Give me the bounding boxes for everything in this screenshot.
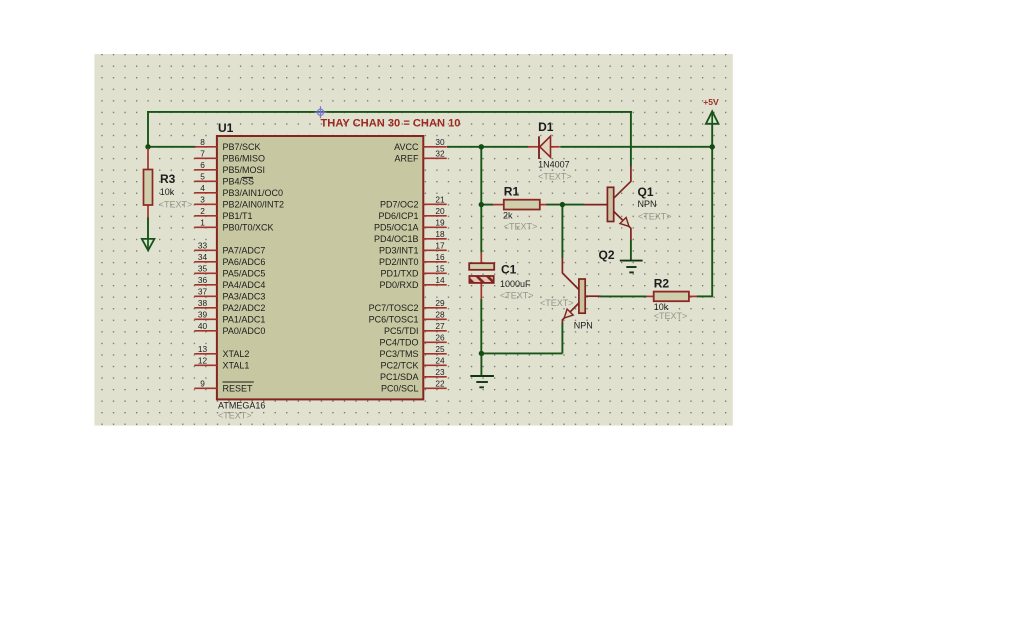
svg-text:33: 33 xyxy=(198,240,208,250)
svg-text:28: 28 xyxy=(435,309,445,319)
junction node C1 ground xyxy=(479,351,484,356)
svg-text:19: 19 xyxy=(435,217,445,227)
svg-text:R1: R1 xyxy=(504,185,520,199)
svg-text:2: 2 xyxy=(200,206,205,216)
wire Q2 emitter down xyxy=(561,323,563,354)
svg-text:<TEXT>: <TEXT> xyxy=(540,298,574,308)
svg-text:40: 40 xyxy=(198,321,208,331)
pin 9 RESET (left) xyxy=(194,378,254,393)
pin 8 PB7/SCK (left) xyxy=(194,137,260,152)
svg-text:2k: 2k xyxy=(503,210,513,220)
svg-text:PD0/RXD: PD0/RXD xyxy=(379,280,419,290)
svg-text:ATMEGA16: ATMEGA16 xyxy=(218,401,265,411)
svg-text:27: 27 xyxy=(435,321,445,331)
wire R2 right to +5V riser xyxy=(697,295,713,297)
pin 4 PB3/AIN1/OC0 (left) xyxy=(194,183,283,198)
svg-text:PB3/AIN1/OC0: PB3/AIN1/OC0 xyxy=(223,188,284,198)
svg-text:PA3/ADC3: PA3/ADC3 xyxy=(223,292,266,302)
svg-text:PC4/TDO: PC4/TDO xyxy=(379,338,418,348)
svg-text:30: 30 xyxy=(435,137,445,147)
ground terminal below R3 xyxy=(142,218,155,251)
pin 17 PD3/INT1 (right) xyxy=(379,240,447,255)
svg-text:25: 25 xyxy=(435,344,445,354)
transistor Q1 NPN xyxy=(584,166,672,240)
pin 26 PC4/TDO (right) xyxy=(379,332,446,347)
svg-text:XTAL1: XTAL1 xyxy=(223,361,250,371)
schematic note THAY CHAN 30 = CHAN 10 xyxy=(321,118,461,130)
pin 33 PA7/ADC7 (left) xyxy=(194,240,265,255)
svg-text:5: 5 xyxy=(200,171,205,181)
svg-text:8: 8 xyxy=(200,137,205,147)
junction node Q1 base / Q2 collector xyxy=(560,202,565,207)
svg-text:34: 34 xyxy=(198,252,208,262)
svg-text:THAY CHAN 30 = CHAN 10: THAY CHAN 30 = CHAN 10 xyxy=(321,118,461,130)
pin 35 PA5/ADC5 (left) xyxy=(194,263,265,278)
pin 1 PB0/T0/XCK (left) xyxy=(194,217,273,232)
pin 38 PA2/ADC2 (left) xyxy=(194,298,265,313)
svg-text:1: 1 xyxy=(200,217,205,227)
wire node down to Q2 collector xyxy=(561,205,563,258)
svg-text:PB4/SS: PB4/SS xyxy=(223,177,255,187)
svg-text:<TEXT>: <TEXT> xyxy=(159,200,193,210)
svg-text:R3: R3 xyxy=(160,172,176,186)
svg-text:24: 24 xyxy=(435,355,445,365)
pin 12 XTAL1 (left) xyxy=(194,355,249,370)
svg-text:PA5/ADC5: PA5/ADC5 xyxy=(223,269,266,279)
svg-text:9: 9 xyxy=(200,378,205,388)
pin 36 PA4/ADC4 (left) xyxy=(194,275,265,290)
svg-text:PA0/ADC0: PA0/ADC0 xyxy=(223,326,266,336)
wire AVCC pin30 to D1 xyxy=(447,146,528,148)
svg-text:<TEXT>: <TEXT> xyxy=(654,311,688,321)
svg-text:PB7/SCK: PB7/SCK xyxy=(223,142,261,152)
diode D1 1N4007 xyxy=(528,120,572,181)
svg-text:PC3/TMS: PC3/TMS xyxy=(379,349,418,359)
junction node R1 left xyxy=(479,202,484,207)
svg-text:<TEXT>: <TEXT> xyxy=(638,212,672,222)
svg-text:36: 36 xyxy=(198,275,208,285)
resistor R3 10k (vertical) xyxy=(144,148,193,218)
svg-text:18: 18 xyxy=(435,229,445,239)
svg-text:PD1/TXD: PD1/TXD xyxy=(380,269,419,279)
svg-text:Q2: Q2 xyxy=(599,248,615,262)
wire C1 bottom to junction xyxy=(480,299,482,353)
svg-text:20: 20 xyxy=(435,206,445,216)
svg-text:39: 39 xyxy=(198,309,208,319)
svg-text:22: 22 xyxy=(435,378,445,388)
wire left riser to R3 junction xyxy=(147,111,149,147)
pin 28 PC6/TOSC1 (right) xyxy=(369,309,447,324)
wire top rail from left riser to Q1 collector xyxy=(147,111,632,113)
svg-text:RESET: RESET xyxy=(223,384,254,394)
pin 22 PC0/SCL (right) xyxy=(381,378,447,393)
svg-text:PD4/OC1B: PD4/OC1B xyxy=(374,234,419,244)
wire D1 to +5V rail xyxy=(560,146,712,148)
wire +5V riser xyxy=(711,124,713,298)
pin 40 PA0/ADC0 (left) xyxy=(194,321,265,336)
wire vertical from AVCC net to C1 and R1 xyxy=(480,147,482,253)
pin 27 PC5/TDI (right) xyxy=(384,321,447,336)
wire Q1 collector riser xyxy=(630,112,632,167)
wire emitter to C1 ground junction xyxy=(481,352,562,354)
wire junction to U1 pin 8 xyxy=(148,146,196,148)
svg-text:26: 26 xyxy=(435,332,445,342)
svg-text:1N4007: 1N4007 xyxy=(538,160,570,170)
pin 18 PD4/OC1B (right) xyxy=(374,229,447,244)
svg-text:PD7/OC2: PD7/OC2 xyxy=(380,200,419,210)
svg-text:U1: U1 xyxy=(218,121,234,135)
svg-text:C1: C1 xyxy=(501,262,517,276)
U1 value label ATMEGA16 xyxy=(218,401,265,411)
junction node +5V rail xyxy=(710,144,715,149)
svg-text:PD3/INT1: PD3/INT1 xyxy=(379,246,419,256)
svg-text:Q1: Q1 xyxy=(638,185,654,199)
pin 34 PA6/ADC6 (left) xyxy=(194,252,265,267)
IC U1 ATMEGA16 body xyxy=(217,136,423,399)
svg-text:PD5/OC1A: PD5/OC1A xyxy=(374,223,419,233)
svg-text:23: 23 xyxy=(435,367,445,377)
svg-text:PC0/SCL: PC0/SCL xyxy=(381,384,419,394)
pin 39 PA1/ADC1 (left) xyxy=(194,309,265,324)
svg-text:21: 21 xyxy=(435,194,445,204)
U1 reference label xyxy=(218,121,234,135)
svg-text:PA2/ADC2: PA2/ADC2 xyxy=(223,303,266,313)
svg-text:7: 7 xyxy=(200,148,205,158)
svg-text:AVCC: AVCC xyxy=(394,142,419,152)
pin 7 PB6/MISO (left) xyxy=(194,148,265,163)
pin 15 PD1/TXD (right) xyxy=(380,263,446,278)
svg-text:37: 37 xyxy=(198,286,208,296)
svg-text:R2: R2 xyxy=(654,277,670,291)
wire Q1 emitter to ground xyxy=(630,240,632,261)
svg-text:1000uF: 1000uF xyxy=(500,279,531,289)
U1 text placeholder xyxy=(218,411,252,421)
svg-text:D1: D1 xyxy=(538,120,554,134)
svg-text:<TEXT>: <TEXT> xyxy=(218,411,252,421)
svg-text:6: 6 xyxy=(200,160,205,170)
svg-text:PC7/TOSC2: PC7/TOSC2 xyxy=(369,303,419,313)
svg-text:38: 38 xyxy=(198,298,208,308)
svg-text:PB5/MOSI: PB5/MOSI xyxy=(223,165,266,175)
junction node R3/pin8 xyxy=(145,144,150,149)
ground below Q1 emitter xyxy=(620,261,643,273)
svg-text:4: 4 xyxy=(200,183,205,193)
svg-text:<TEXT>: <TEXT> xyxy=(504,222,538,232)
svg-text:<TEXT>: <TEXT> xyxy=(500,290,534,300)
svg-text:NPN: NPN xyxy=(638,199,657,209)
svg-text:PD2/INT0: PD2/INT0 xyxy=(379,257,419,267)
resistor R2 10k (horizontal) xyxy=(647,277,698,321)
svg-text:PA1/ADC1: PA1/ADC1 xyxy=(223,315,266,325)
pin 6 PB5/MOSI (left) xyxy=(194,160,265,175)
svg-text:29: 29 xyxy=(435,298,445,308)
svg-text:PA6/ADC6: PA6/ADC6 xyxy=(223,257,266,267)
svg-text:32: 32 xyxy=(435,148,445,158)
pin 16 PD2/INT0 (right) xyxy=(379,252,447,267)
svg-text:PC6/TOSC1: PC6/TOSC1 xyxy=(369,315,419,325)
svg-text:<TEXT>: <TEXT> xyxy=(538,171,572,181)
wire R1 right to node, node to Q1 base xyxy=(546,204,584,206)
svg-text:PB0/T0/XCK: PB0/T0/XCK xyxy=(223,223,274,233)
pin 2 PB1/T1 (left) xyxy=(194,206,252,221)
svg-text:XTAL2: XTAL2 xyxy=(223,349,250,359)
pin 25 PC3/TMS (right) xyxy=(379,344,446,359)
svg-text:PA7/ADC7: PA7/ADC7 xyxy=(223,246,266,256)
svg-text:10k: 10k xyxy=(160,187,175,197)
svg-text:+5V: +5V xyxy=(703,97,719,107)
pin 30 AVCC (right) xyxy=(394,137,447,152)
pin 32 AREF (right) xyxy=(394,148,446,163)
svg-text:PB6/MISO: PB6/MISO xyxy=(223,154,266,164)
svg-text:PA4/ADC4: PA4/ADC4 xyxy=(223,280,266,290)
origin marker xyxy=(315,106,327,118)
junction node AVCC/C1 xyxy=(479,144,484,149)
svg-text:PC5/TDI: PC5/TDI xyxy=(384,326,419,336)
svg-text:AREF: AREF xyxy=(394,154,419,164)
pin 3 PB2/AIN0/INT2 (left) xyxy=(194,194,284,209)
svg-text:16: 16 xyxy=(435,252,445,262)
resistor R1 2k (horizontal) xyxy=(493,185,547,232)
pin 19 PD5/OC1A (right) xyxy=(374,217,447,232)
pin 21 PD7/OC2 (right) xyxy=(380,194,447,209)
svg-text:PB1/T1: PB1/T1 xyxy=(223,211,253,221)
pin 24 PC2/TCK (right) xyxy=(380,355,446,370)
pin 13 XTAL2 (left) xyxy=(194,344,249,359)
svg-text:PC1/SDA: PC1/SDA xyxy=(380,372,419,382)
svg-text:NPN: NPN xyxy=(574,320,593,330)
svg-text:3: 3 xyxy=(200,194,205,204)
ground below C1 xyxy=(470,376,494,387)
power terminal +5V xyxy=(703,97,719,124)
svg-text:15: 15 xyxy=(435,263,445,273)
pin 23 PC1/SDA (right) xyxy=(380,367,447,382)
svg-text:13: 13 xyxy=(198,344,208,354)
pin 37 PA3/ADC3 (left) xyxy=(194,286,265,301)
svg-text:35: 35 xyxy=(198,263,208,273)
schematic sheet background xyxy=(94,54,732,426)
wire Q2 base to R2 xyxy=(600,295,647,297)
svg-text:PB2/AIN0/INT2: PB2/AIN0/INT2 xyxy=(223,200,285,210)
pin 29 PC7/TOSC2 (right) xyxy=(369,298,447,313)
wire R1 left stub xyxy=(481,204,493,206)
pin 5 PB4/SS (left) xyxy=(194,171,254,186)
pin 14 PD0/RXD (right) xyxy=(379,275,446,290)
svg-text:12: 12 xyxy=(198,355,208,365)
wire junction down to ground xyxy=(480,353,482,376)
transistor Q2 NPN (mirrored) xyxy=(540,248,615,330)
svg-text:17: 17 xyxy=(435,240,445,250)
svg-text:14: 14 xyxy=(435,275,445,285)
svg-text:PD6/ICP1: PD6/ICP1 xyxy=(378,211,418,221)
pin 20 PD6/ICP1 (right) xyxy=(378,206,446,221)
svg-text:PC2/TCK: PC2/TCK xyxy=(380,361,418,371)
capacitor C1 1000uF (electrolytic) xyxy=(469,253,533,301)
